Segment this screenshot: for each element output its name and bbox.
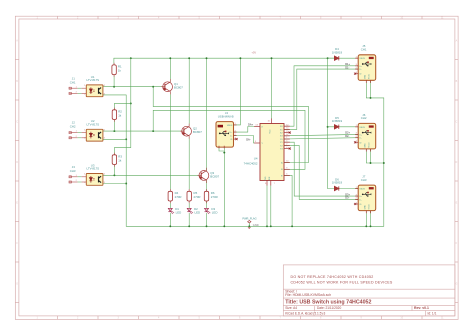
- svg-text:VBUS: VBUS: [359, 58, 365, 60]
- wire GND bottom rail: [126, 98, 384, 226]
- junction VCC riser on rail: [271, 57, 273, 59]
- wire opto U3 collector to Q3 base: [103, 174, 201, 176]
- wire VBUS riser to J6 J7 diodes: [327, 58, 329, 188]
- resistor R2 1k: [112, 108, 122, 122]
- wire opto U3 emitter to bus: [103, 183, 126, 185]
- junction VBUS riser at D5 row: [327, 126, 329, 128]
- svg-text:D-: D-: [359, 69, 361, 71]
- wire J5 GND and shield to ground bus: [366, 80, 384, 98]
- svg-text:CH1: CH1: [361, 48, 367, 52]
- svg-text:GND: GND: [364, 143, 366, 148]
- wire Q3 emitter to R6: [206, 180, 208, 191]
- svg-text:1k: 1k: [118, 158, 122, 162]
- USB connector J5 CH1: [354, 44, 376, 83]
- svg-text:LTV-817S: LTV-817S: [86, 123, 99, 127]
- USB connector J4 USB-MINI-B: [216, 111, 238, 148]
- svg-text:G: G: [455, 283, 457, 286]
- IC U4 74HC4052 analog multiplexer: [244, 119, 291, 186]
- svg-text:C: C: [16, 121, 18, 124]
- wire R1 bottom lead: [113, 75, 115, 86]
- transistor Q1 BC807 PNP: [161, 79, 172, 94]
- LED D1: [168, 208, 174, 214]
- junction J6 ground on bus: [383, 162, 385, 164]
- wire R5 to LED D2: [188, 201, 190, 208]
- svg-text:CH2: CH2: [361, 116, 367, 120]
- svg-text:1N5819: 1N5819: [332, 50, 343, 54]
- svg-text:1N5819: 1N5819: [332, 181, 343, 185]
- junction dropper to R2: [130, 102, 132, 104]
- junction LED D3 on GND rail: [206, 225, 208, 227]
- svg-text:270R: 270R: [194, 195, 201, 199]
- resistor R6 270R: [204, 189, 217, 203]
- junction J7 shield on rail: [370, 225, 372, 227]
- transistor Q2 BC807 PNP: [180, 124, 191, 139]
- diode D4 1N5819: [334, 56, 338, 60]
- wire 74HC4052 VEE to GND rail: [270, 186, 272, 227]
- wire +5V top rail: [114, 57, 334, 59]
- svg-text:BC807: BC807: [210, 174, 219, 178]
- svg-text:Id: 1/1: Id: 1/1: [428, 312, 437, 316]
- junction J4 GND pins: [223, 152, 225, 154]
- junction Q1 collector on rail: [169, 57, 171, 59]
- svg-text:1k: 1k: [118, 69, 122, 73]
- svg-text:PWR_FLAG: PWR_FLAG: [242, 216, 256, 220]
- wire 74HC4052 VSS to GND rail: [266, 186, 268, 227]
- svg-text:GND: GND: [253, 223, 259, 227]
- wire diode D5 to J6 VBUS: [339, 126, 358, 128]
- wire R2 top lead: [114, 103, 130, 109]
- svg-text:VCC: VCC: [269, 129, 271, 134]
- junction VBUS riser on rail: [327, 57, 329, 59]
- wire mux X2 to J7 D+ net D3+: [284, 142, 358, 196]
- wire select A from Q1 base to mux pin A: [153, 87, 308, 163]
- wire mux Y0 to J5 D- net D1-: [284, 69, 358, 129]
- svg-text:D-: D-: [230, 136, 232, 138]
- svg-text:LTV-817S: LTV-817S: [86, 78, 99, 82]
- svg-text:Title: USB Switch using 74HC40: Title: USB Switch using 74HC4052: [285, 299, 371, 305]
- wire Q3 collector to +5V rail: [206, 58, 208, 170]
- svg-text:CH3: CH3: [361, 178, 367, 182]
- junction J7 GND on rail: [365, 225, 367, 227]
- junction J4 VBUS on rail: [239, 57, 241, 59]
- svg-text:D2-: D2-: [345, 134, 349, 138]
- svg-text:USB-MINI-B: USB-MINI-B: [218, 115, 234, 119]
- junction VSS on rail: [266, 225, 268, 227]
- svg-text:DO NOT REPLACE 74HC4052 WITH C: DO NOT REPLACE 74HC4052 WITH CD4052: [291, 275, 374, 279]
- svg-text:LED: LED: [176, 211, 182, 215]
- svg-text:D3-: D3-: [345, 196, 349, 200]
- resistor R5 270R: [187, 189, 200, 203]
- svg-text:BC807: BC807: [174, 86, 183, 90]
- junction Q3 collector on rail: [206, 57, 208, 59]
- wire J4 VBUS to +5V rail: [234, 58, 241, 125]
- wire LED D1 to GND rail: [169, 213, 171, 226]
- wire mux Y2 to J7 D- net D3-: [284, 145, 358, 199]
- svg-text:VEE: VEE: [269, 176, 271, 181]
- title block: [283, 265, 455, 316]
- connector J1 CH1: [69, 76, 86, 94]
- wire opto emitter ground bus: [103, 95, 126, 226]
- svg-text:DA-: DA-: [246, 137, 251, 141]
- junction R1 bottom: [113, 86, 115, 88]
- svg-text:BC807: BC807: [193, 130, 202, 134]
- svg-text:Rev: v0.1: Rev: v0.1: [414, 306, 429, 310]
- svg-text:D1-: D1-: [345, 65, 349, 69]
- wire mux Y1 to J6 D- net D2-: [284, 138, 358, 139]
- resistor R1 1k: [112, 63, 122, 77]
- wire opto U2 emitter to bus: [103, 138, 126, 140]
- svg-text:G: G: [16, 283, 18, 286]
- connector J3 CH3: [69, 165, 86, 183]
- optocoupler U3 LTV-817S: [84, 163, 105, 185]
- wire select B from Q2 base to mux pin B: [153, 110, 305, 169]
- LED D3: [205, 208, 211, 214]
- wire J6 GND and shield to ground bus: [366, 149, 384, 163]
- junction PWR_FLAG on rail: [248, 225, 250, 227]
- svg-text:D: D: [456, 161, 458, 164]
- wire opto U1 collector to Q1 base: [103, 86, 165, 88]
- svg-text:Shield: Shield: [369, 74, 371, 79]
- power flag PWR_FLAG on GND rail: [242, 216, 256, 226]
- svg-text:LED: LED: [212, 211, 218, 215]
- svg-text:VBUS: VBUS: [227, 125, 233, 127]
- wire mux X0 to J5 D+ net D1+: [284, 66, 358, 126]
- junction R3 bottom: [113, 174, 115, 176]
- USB connector J6 CH2: [354, 113, 376, 152]
- svg-text:Shield: Shield: [369, 204, 371, 209]
- wire R6 to LED D3: [206, 201, 208, 208]
- svg-text:Shield: Shield: [369, 142, 371, 147]
- svg-text:DA+: DA+: [248, 123, 254, 127]
- wire diode D6 to J7 VBUS: [339, 188, 358, 190]
- wire mux X1 to J6 D+ net D2+: [284, 134, 358, 135]
- wire J4 D+ to mux pin X net DA+: [234, 127, 255, 133]
- wire J7 GND and shield to ground rail: [365, 211, 367, 227]
- junction opto U3 emitter: [125, 183, 127, 185]
- svg-text:D-: D-: [359, 138, 361, 140]
- USB connector J7 CH3: [354, 175, 376, 214]
- wire +5V dropper for R2 R3: [114, 58, 130, 155]
- svg-text:VBUS: VBUS: [359, 127, 365, 129]
- svg-text:LED: LED: [195, 211, 201, 215]
- svg-text:Date: 21/11/2020: Date: 21/11/2020: [317, 306, 341, 310]
- wire R3 bottom lead: [113, 164, 115, 175]
- svg-text:GND: GND: [364, 205, 366, 210]
- svg-text:270R: 270R: [211, 195, 218, 199]
- junction Q2 collector on rail: [188, 57, 190, 59]
- svg-text:File: HDMI-USB-KVMSwA.sch: File: HDMI-USB-KVMSwA.sch: [285, 293, 331, 297]
- wire LED D3 to GND rail: [206, 213, 208, 226]
- svg-text:KiCad E.D.A. kicad (5.1.5)-3: KiCad E.D.A. kicad (5.1.5)-3: [285, 312, 325, 316]
- wire riser to diode D5: [328, 126, 335, 128]
- svg-text:1N5819: 1N5819: [332, 119, 343, 123]
- resistor R3 1k: [112, 153, 122, 167]
- svg-text:CH3: CH3: [70, 169, 76, 173]
- junction J4 GND on rail: [223, 225, 225, 227]
- diode D5 1N5819: [334, 125, 338, 129]
- wire R4 to LED D1: [169, 201, 171, 208]
- wire riser to diode D6: [328, 188, 335, 190]
- junction LED D1 on GND rail: [169, 225, 171, 227]
- LED D2: [187, 208, 193, 214]
- junction +5V rail / R2R3 dropper: [130, 57, 132, 59]
- optocoupler U1 LTV-817S: [84, 75, 105, 97]
- connector J2 CH2: [69, 121, 86, 139]
- svg-text:U4: U4: [254, 157, 258, 161]
- svg-text:Size: A4: Size: A4: [285, 306, 297, 310]
- wire rail to diode D4: [328, 57, 335, 59]
- svg-text:GND: GND: [364, 74, 366, 79]
- wire 74HC4052 E to GND rail: [284, 175, 292, 226]
- junction opto U2 emitter: [125, 138, 127, 140]
- wire Q2 emitter to R5: [188, 136, 190, 191]
- wire Q1 emitter to R4: [169, 92, 171, 192]
- wire +5V rail drop to R1: [113, 58, 115, 65]
- wire J4 D- to mux pin Y net DA-: [234, 136, 255, 144]
- junction R2 bottom: [113, 130, 115, 132]
- wire Q1 collector to +5V rail: [169, 58, 171, 82]
- svg-text:CH1: CH1: [70, 80, 76, 84]
- optocoupler U2 LTV-817S: [84, 119, 105, 141]
- svg-text:VSS: VSS: [265, 176, 267, 181]
- resistor R4 270R: [168, 189, 181, 203]
- svg-text:CD4052 WILL NOT WORK FOR FULL: CD4052 WILL NOT WORK FOR FULL SPEED DEVI…: [291, 280, 393, 284]
- svg-text:CH2: CH2: [70, 125, 76, 129]
- junction Q2 base / select-B tap: [152, 130, 154, 132]
- wire R2 bottom lead: [113, 120, 115, 131]
- junction E on rail: [291, 225, 293, 227]
- diode D6 1N5819: [334, 186, 338, 190]
- wire LED D2 to GND rail: [188, 213, 190, 226]
- svg-text:+5V: +5V: [251, 51, 256, 55]
- junction J5 shield: [370, 97, 372, 99]
- wire diode D4 to J5 VBUS: [339, 57, 358, 59]
- svg-text:270R: 270R: [175, 195, 182, 199]
- junction VEE on rail: [270, 225, 272, 227]
- svg-text:C: C: [456, 121, 458, 124]
- wire Q2 collector to +5V rail: [188, 58, 190, 126]
- svg-text:74HC4052: 74HC4052: [244, 162, 258, 166]
- ground symbol GND: [248, 226, 251, 229]
- svg-text:D: D: [16, 161, 18, 164]
- transistor Q3 BC807 PNP: [198, 168, 209, 183]
- svg-text:LTV-817S: LTV-817S: [86, 167, 99, 171]
- svg-text:D-: D-: [359, 199, 361, 201]
- wire J4 GND to bottom rail: [219, 146, 224, 151]
- junction LED D2 on GND rail: [188, 225, 190, 227]
- wire 74HC4052 VCC to +5V rail: [271, 58, 273, 118]
- junction J6 shield: [370, 162, 372, 164]
- svg-text:VBUS: VBUS: [359, 189, 365, 191]
- junction Q1 base / select-A tap: [152, 86, 154, 88]
- wire opto U2 collector to Q2 base: [103, 130, 184, 132]
